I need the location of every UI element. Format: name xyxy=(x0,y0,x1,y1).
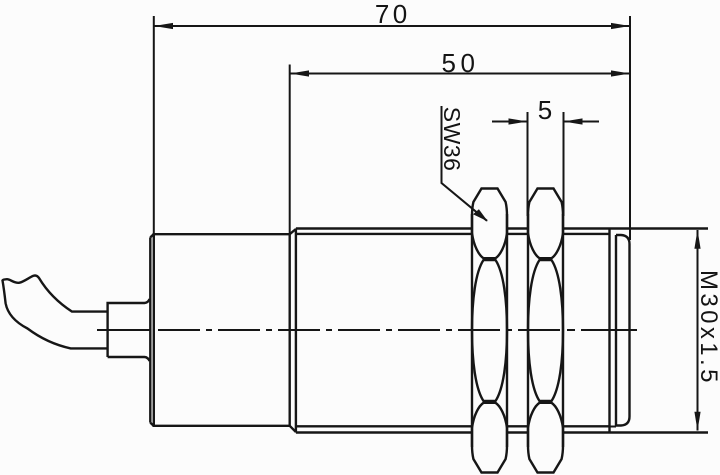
svg-text:M30x1.5: M30x1.5 xyxy=(695,270,720,386)
leader SW36 xyxy=(442,106,488,221)
svg-text:5: 5 xyxy=(538,95,552,125)
housing cylinder xyxy=(150,234,290,426)
hex nut 2 xyxy=(528,189,563,473)
svg-text:50: 50 xyxy=(442,48,480,78)
dimension line 50 xyxy=(290,73,630,75)
arrowhead dim 5 right xyxy=(564,118,583,124)
cable gland xyxy=(108,299,151,361)
extension line left (50) xyxy=(289,65,291,235)
arrowhead dim 50 left xyxy=(290,70,309,76)
threaded barrel xyxy=(290,229,708,433)
arrowhead dim M30 top xyxy=(694,230,700,249)
arrowhead dim 70 right xyxy=(611,23,630,29)
dimension line 70 xyxy=(154,25,630,27)
svg-text:SW36: SW36 xyxy=(439,107,465,172)
arrowhead dim 70 left xyxy=(154,23,173,29)
extension line right (70/50) xyxy=(629,16,631,240)
svg-text:70: 70 xyxy=(375,0,411,29)
dimension line M30x1.5 xyxy=(697,230,699,431)
arrowhead dim M30 bottom xyxy=(694,412,700,431)
arrowhead leader SW36 xyxy=(473,209,488,221)
dimension line 5 (outside arrows) xyxy=(492,121,528,123)
extension lines (5) xyxy=(527,112,529,216)
arrowhead dim 5 left xyxy=(509,118,528,124)
centerline xyxy=(97,329,637,331)
arrowhead dim 50 right xyxy=(611,70,630,76)
end cap xyxy=(610,229,630,433)
cable xyxy=(3,276,108,349)
extension line left (70) xyxy=(153,16,155,236)
hex nut 1 (SW36) xyxy=(472,189,507,473)
